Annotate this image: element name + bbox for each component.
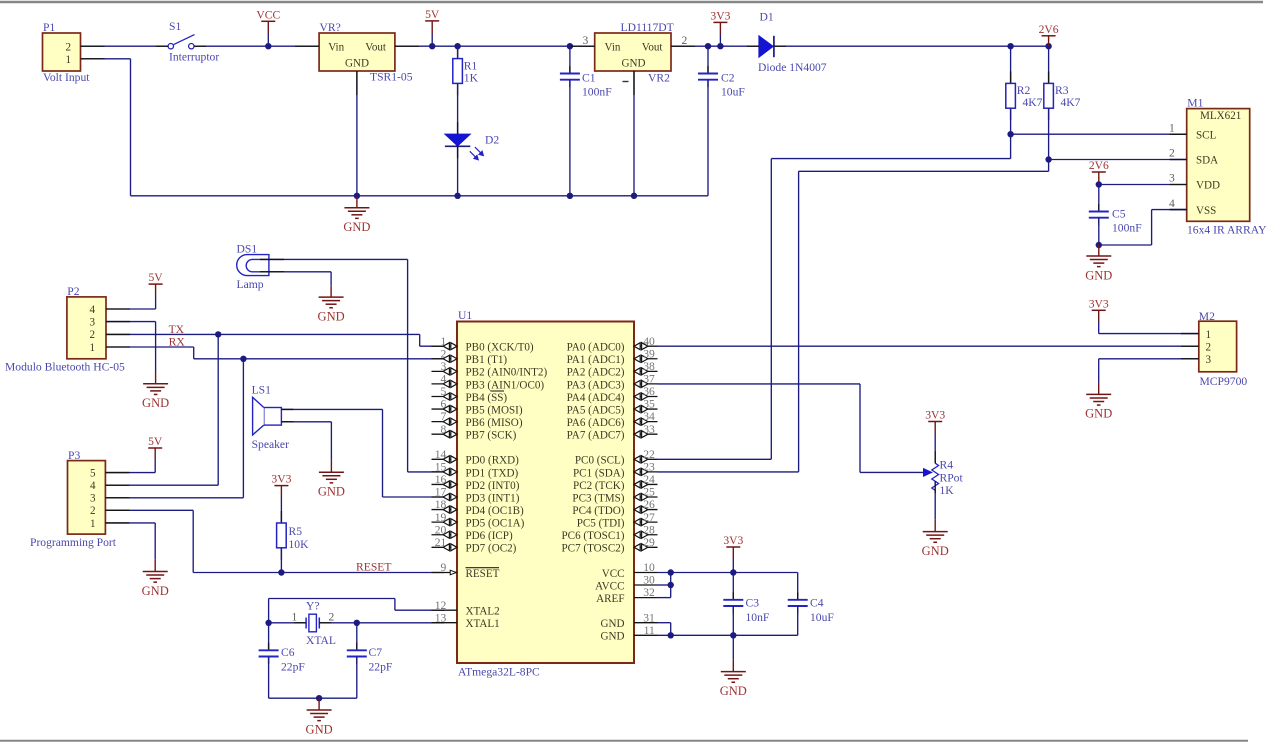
svg-text:33: 33 <box>643 423 655 436</box>
svg-text:3: 3 <box>89 317 95 329</box>
svg-text:PB5 (MOSI): PB5 (MOSI) <box>466 404 523 416</box>
svg-text:PD6 (ICP): PD6 (ICP) <box>466 530 513 542</box>
svg-text:GND: GND <box>720 684 747 698</box>
svg-text:2: 2 <box>90 505 96 517</box>
svg-text:RESET: RESET <box>356 560 391 573</box>
svg-text:GND: GND <box>600 618 624 630</box>
svg-text:5: 5 <box>441 385 447 398</box>
svg-text:13: 13 <box>435 611 447 624</box>
svg-text:4: 4 <box>441 373 447 386</box>
svg-text:3: 3 <box>1206 354 1212 366</box>
svg-text:17: 17 <box>435 486 447 499</box>
svg-text:1: 1 <box>1206 329 1212 341</box>
svg-text:3: 3 <box>90 493 96 505</box>
svg-text:PB1 (T1): PB1 (T1) <box>466 354 508 366</box>
svg-text:PA1 (ADC1): PA1 (ADC1) <box>567 354 625 366</box>
svg-text:VR2: VR2 <box>648 72 670 85</box>
svg-text:39: 39 <box>643 347 655 360</box>
svg-text:PD4 (OC1B): PD4 (OC1B) <box>466 505 525 517</box>
svg-text:SDA: SDA <box>1196 155 1218 167</box>
svg-text:GND: GND <box>1085 268 1112 282</box>
svg-text:P1: P1 <box>43 21 55 34</box>
svg-text:36: 36 <box>643 385 655 398</box>
svg-text:22pF: 22pF <box>369 660 393 673</box>
svg-text:C3: C3 <box>746 596 760 609</box>
svg-text:D2: D2 <box>485 133 499 146</box>
svg-text:11: 11 <box>644 624 655 637</box>
svg-text:3: 3 <box>583 34 589 47</box>
svg-text:VSS: VSS <box>1196 205 1216 217</box>
svg-text:P3: P3 <box>68 449 80 462</box>
svg-text:21: 21 <box>435 536 447 549</box>
svg-text:38: 38 <box>643 360 655 373</box>
svg-text:3V3: 3V3 <box>723 534 743 547</box>
svg-text:30: 30 <box>643 574 655 587</box>
svg-text:PD0 (RXD): PD0 (RXD) <box>466 455 520 467</box>
svg-text:GND: GND <box>318 485 345 499</box>
svg-text:1: 1 <box>441 335 447 348</box>
svg-text:PC2 (TCK): PC2 (TCK) <box>573 480 625 492</box>
svg-text:PD3 (INT1): PD3 (INT1) <box>466 492 520 504</box>
svg-text:Vout: Vout <box>365 42 387 54</box>
svg-text:32: 32 <box>643 586 655 599</box>
svg-text:PA6 (ADC6): PA6 (ADC6) <box>567 417 625 429</box>
svg-text:PA4 (ADC4): PA4 (ADC4) <box>567 392 625 404</box>
svg-text:GND: GND <box>345 58 369 70</box>
svg-text:4K7: 4K7 <box>1061 96 1081 109</box>
svg-text:34: 34 <box>643 410 655 423</box>
svg-text:22: 22 <box>643 448 655 461</box>
svg-text:1: 1 <box>65 54 71 66</box>
svg-text:16: 16 <box>435 473 447 486</box>
svg-text:5V: 5V <box>425 8 440 21</box>
svg-text:VCC: VCC <box>256 8 280 21</box>
svg-text:D1: D1 <box>760 10 774 23</box>
svg-text:100nF: 100nF <box>1112 222 1142 235</box>
svg-text:3: 3 <box>1169 172 1175 185</box>
svg-text:Y?: Y? <box>306 599 320 612</box>
svg-text:22pF: 22pF <box>281 660 305 673</box>
svg-text:20: 20 <box>435 523 447 536</box>
svg-text:RPot: RPot <box>940 471 964 484</box>
svg-text:8: 8 <box>441 423 447 436</box>
svg-text:18: 18 <box>435 498 447 511</box>
svg-text:PA7 (ADC7): PA7 (ADC7) <box>567 430 625 442</box>
svg-text:C2: C2 <box>721 71 735 84</box>
svg-text:15: 15 <box>435 460 447 473</box>
svg-text:C7: C7 <box>369 646 383 659</box>
svg-text:PB4 (SS): PB4 (SS) <box>466 392 508 404</box>
svg-text:PD2 (INT0): PD2 (INT0) <box>466 480 520 492</box>
svg-text:R5: R5 <box>289 525 303 538</box>
svg-text:Vin: Vin <box>605 42 621 54</box>
svg-text:GND: GND <box>1085 407 1112 421</box>
svg-text:VCC: VCC <box>602 568 625 580</box>
svg-text:Speaker: Speaker <box>252 438 289 451</box>
svg-text:GND: GND <box>600 631 624 643</box>
svg-text:5V: 5V <box>149 271 164 284</box>
svg-text:XTAL: XTAL <box>306 634 336 647</box>
svg-text:4: 4 <box>1169 197 1175 210</box>
svg-text:3V3: 3V3 <box>1089 297 1109 310</box>
svg-text:C1: C1 <box>582 71 596 84</box>
svg-text:28: 28 <box>643 523 655 536</box>
svg-text:MCP9700: MCP9700 <box>1200 375 1248 388</box>
svg-text:2: 2 <box>441 347 447 360</box>
svg-text:12: 12 <box>435 599 447 612</box>
svg-text:ATmega32L-8PC: ATmega32L-8PC <box>458 666 540 679</box>
svg-text:XTAL1: XTAL1 <box>466 618 500 630</box>
svg-text:PB0 (XCK/T0): PB0 (XCK/T0) <box>466 342 534 354</box>
svg-text:DS1: DS1 <box>237 242 258 255</box>
svg-text:PA0 (ADC0): PA0 (ADC0) <box>567 342 625 354</box>
svg-text:10uF: 10uF <box>810 611 834 624</box>
svg-text:R3: R3 <box>1055 84 1069 97</box>
svg-text:GND: GND <box>318 309 345 323</box>
svg-text:PC3 (TMS): PC3 (TMS) <box>572 492 624 504</box>
svg-text:PC7 (TOSC2): PC7 (TOSC2) <box>562 543 625 555</box>
svg-text:1K: 1K <box>940 484 955 497</box>
svg-text:RESET: RESET <box>466 568 500 580</box>
svg-text:TSR1-05: TSR1-05 <box>370 71 413 84</box>
svg-text:R2: R2 <box>1017 84 1031 97</box>
svg-text:PC0 (SCL): PC0 (SCL) <box>575 455 625 467</box>
svg-text:PD7 (OC2): PD7 (OC2) <box>466 543 517 555</box>
svg-text:Vout: Vout <box>642 42 664 54</box>
svg-text:AVCC: AVCC <box>595 580 624 592</box>
svg-text:P2: P2 <box>67 285 79 298</box>
svg-text:37: 37 <box>643 373 655 386</box>
svg-text:2: 2 <box>329 611 335 624</box>
svg-text:4: 4 <box>89 304 95 316</box>
svg-text:3V3: 3V3 <box>271 473 291 486</box>
svg-text:VDD: VDD <box>1196 180 1220 192</box>
svg-text:1: 1 <box>292 611 298 624</box>
svg-text:1K: 1K <box>464 72 479 85</box>
svg-text:4: 4 <box>90 480 96 492</box>
svg-text:SCL: SCL <box>1196 130 1217 142</box>
svg-text:PB3 (AIN1/OC0): PB3 (AIN1/OC0) <box>466 379 545 391</box>
svg-text:TX: TX <box>169 323 185 336</box>
svg-text:U1: U1 <box>458 309 472 322</box>
svg-text:GND: GND <box>142 584 169 598</box>
svg-text:1: 1 <box>1169 122 1175 135</box>
svg-text:R4: R4 <box>940 458 954 471</box>
svg-text:PD5 (OC1A): PD5 (OC1A) <box>466 518 525 530</box>
svg-text:2V6: 2V6 <box>1039 23 1059 36</box>
svg-text:Volt Input: Volt Input <box>43 71 90 84</box>
svg-text:PC4 (TDO): PC4 (TDO) <box>572 505 624 517</box>
svg-text:3: 3 <box>441 360 447 373</box>
svg-text:2: 2 <box>682 34 688 47</box>
svg-text:Lamp: Lamp <box>237 278 264 291</box>
svg-text:M1: M1 <box>1187 96 1203 109</box>
svg-text:35: 35 <box>643 398 655 411</box>
svg-text:PA2 (ADC2): PA2 (ADC2) <box>567 367 625 379</box>
svg-text:Modulo Bluetooth HC-05: Modulo Bluetooth HC-05 <box>5 360 125 373</box>
svg-text:AREF: AREF <box>596 593 624 605</box>
svg-text:6: 6 <box>441 398 447 411</box>
svg-text:PB6 (MISO): PB6 (MISO) <box>466 417 523 429</box>
svg-text:23: 23 <box>643 460 655 473</box>
svg-text:C6: C6 <box>281 646 295 659</box>
svg-text:2: 2 <box>1206 341 1212 353</box>
svg-text:R1: R1 <box>464 60 478 73</box>
svg-text:PD1 (TXD): PD1 (TXD) <box>466 467 519 479</box>
svg-text:26: 26 <box>643 498 655 511</box>
svg-text:3V3: 3V3 <box>710 9 730 22</box>
svg-text:40: 40 <box>643 335 655 348</box>
svg-text:PC6 (TOSC1): PC6 (TOSC1) <box>562 530 625 542</box>
svg-text:2: 2 <box>65 42 71 54</box>
svg-text:PA5 (ADC5): PA5 (ADC5) <box>567 404 625 416</box>
svg-text:3V3: 3V3 <box>925 409 945 422</box>
svg-text:PC5 (TDI): PC5 (TDI) <box>577 518 625 530</box>
svg-text:100nF: 100nF <box>582 86 612 99</box>
svg-text:31: 31 <box>643 611 655 624</box>
svg-text:24: 24 <box>643 473 655 486</box>
svg-text:1: 1 <box>90 518 96 530</box>
svg-text:2V6: 2V6 <box>1089 159 1109 172</box>
svg-text:S1: S1 <box>169 20 181 33</box>
svg-text:LS1: LS1 <box>252 383 272 396</box>
svg-text:PB7 (SCK): PB7 (SCK) <box>466 430 517 442</box>
svg-text:GND: GND <box>922 544 949 558</box>
svg-text:Interruptor: Interruptor <box>169 51 219 64</box>
svg-text:PC1 (SDA): PC1 (SDA) <box>573 467 625 479</box>
svg-text:GND: GND <box>621 58 645 70</box>
svg-text:PB2 (AIN0/INT2): PB2 (AIN0/INT2) <box>466 367 548 379</box>
svg-text:PA3 (ADC3): PA3 (ADC3) <box>567 379 625 391</box>
svg-text:10K: 10K <box>289 538 310 551</box>
svg-text:C4: C4 <box>810 596 824 609</box>
svg-text:2: 2 <box>1169 147 1175 160</box>
svg-text:LD1117DT: LD1117DT <box>621 21 674 34</box>
svg-text:5V: 5V <box>148 435 163 448</box>
svg-text:M2: M2 <box>1199 310 1215 323</box>
svg-text:GND: GND <box>142 396 169 410</box>
svg-text:19: 19 <box>435 511 447 524</box>
svg-text:Programming Port: Programming Port <box>30 536 117 549</box>
svg-text:MLX621: MLX621 <box>1200 110 1241 122</box>
svg-text:25: 25 <box>643 486 655 499</box>
svg-text:4K7: 4K7 <box>1023 96 1043 109</box>
svg-text:16x4 IR ARRAY: 16x4 IR ARRAY <box>1187 223 1267 236</box>
svg-text:2: 2 <box>89 329 95 341</box>
svg-text:10uF: 10uF <box>721 86 745 99</box>
svg-text:27: 27 <box>643 511 655 524</box>
svg-text:1: 1 <box>89 342 95 354</box>
svg-text:10nF: 10nF <box>746 611 770 624</box>
svg-text:29: 29 <box>643 536 655 549</box>
svg-text:Vin: Vin <box>328 42 344 54</box>
svg-text:9: 9 <box>441 561 447 574</box>
svg-text:C5: C5 <box>1112 207 1126 220</box>
svg-text:VR?: VR? <box>320 21 341 34</box>
svg-text:GND: GND <box>343 220 370 234</box>
svg-text:10: 10 <box>643 561 655 574</box>
svg-text:GND: GND <box>306 722 333 736</box>
svg-text:5: 5 <box>90 468 96 480</box>
svg-text:XTAL2: XTAL2 <box>466 606 500 618</box>
svg-text:7: 7 <box>441 410 447 423</box>
svg-text:Diode 1N4007: Diode 1N4007 <box>758 61 827 74</box>
svg-text:14: 14 <box>435 448 447 461</box>
